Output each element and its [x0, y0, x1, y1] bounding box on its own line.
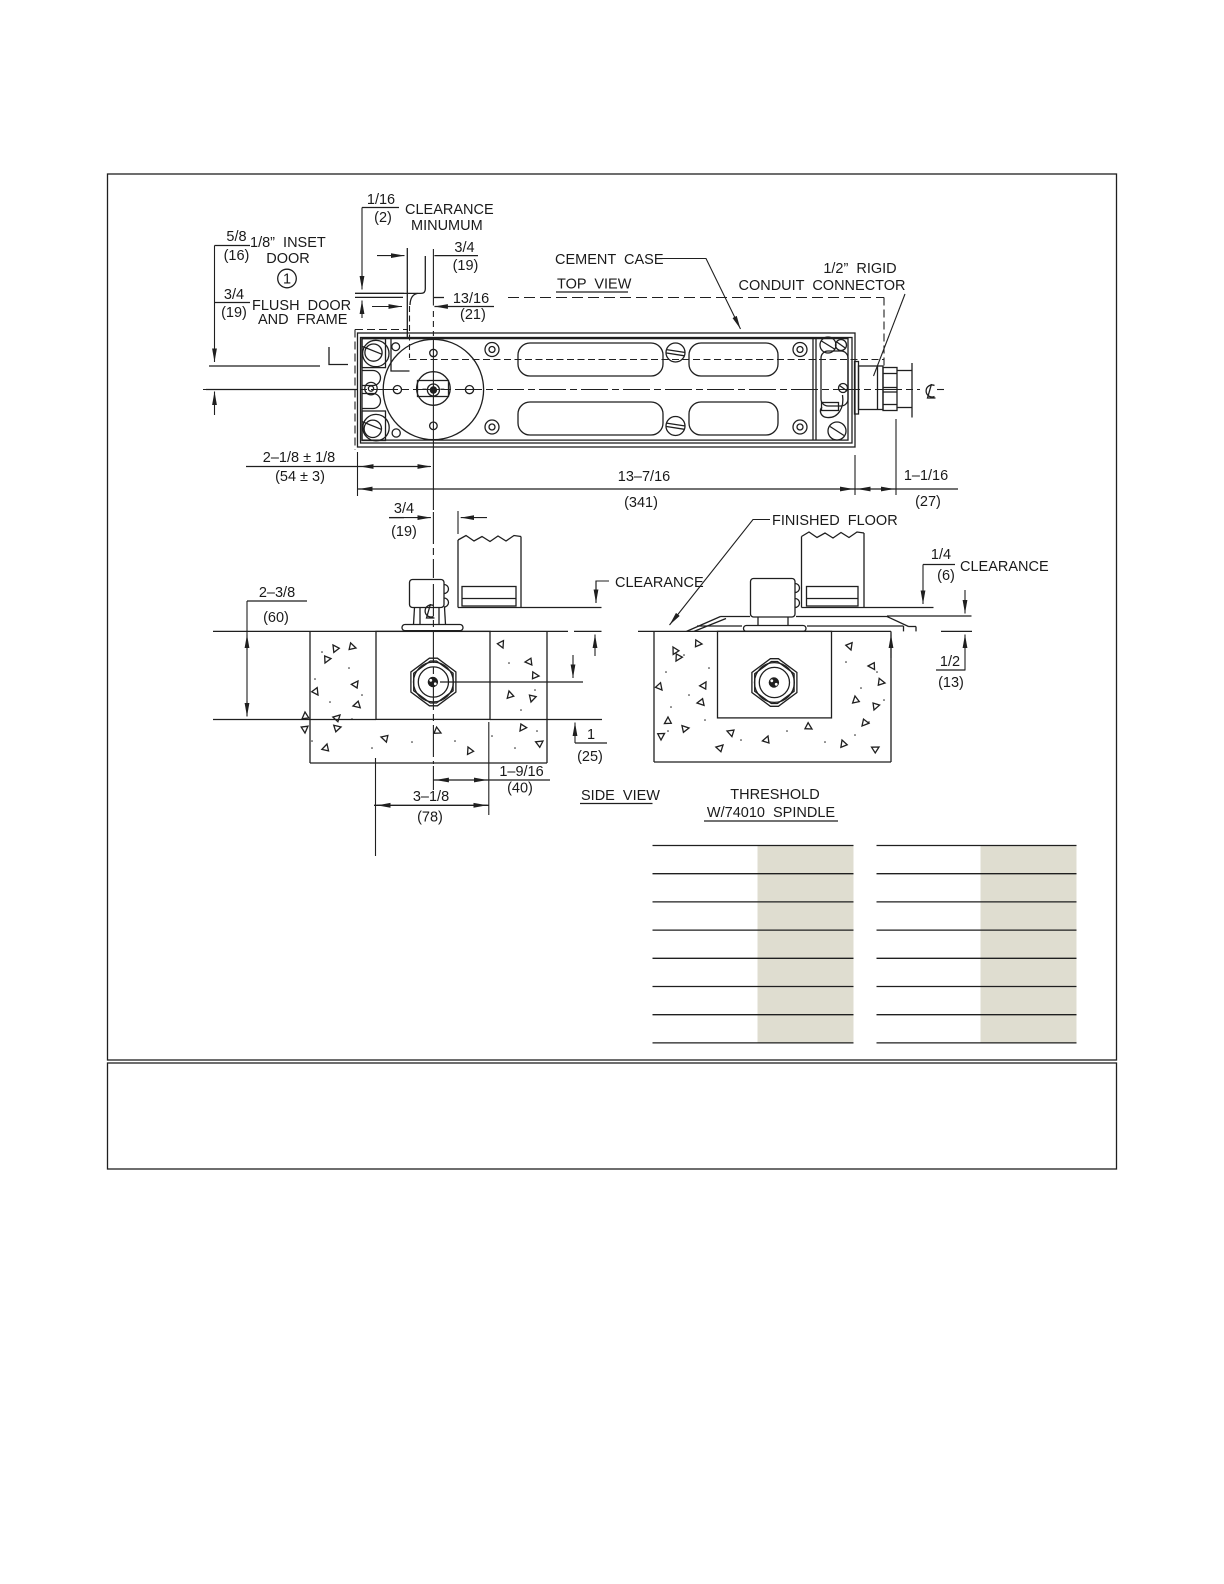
svg-text:1–1/16: 1–1/16 — [904, 468, 948, 484]
cam inner circle — [417, 372, 451, 406]
cement case inner wall — [361, 338, 853, 444]
svg-text:5/8: 5/8 — [226, 229, 246, 245]
svg-text:1/8” INSET: 1/8” INSET — [250, 235, 326, 251]
frame return L — [329, 347, 348, 365]
svg-text:2–3/8: 2–3/8 — [259, 585, 295, 601]
dim 3-1/8 (78) — [374, 804, 489, 806]
svg-text:1/2” RIGID: 1/2” RIGID — [823, 261, 896, 277]
case box — [376, 631, 490, 719]
table left lines — [653, 846, 854, 1043]
right wall double line — [812, 339, 814, 440]
svg-text:(40): (40) — [507, 781, 533, 797]
case box right view — [718, 631, 832, 718]
dim 1-1/16 — [895, 419, 897, 495]
door bottom line right — [802, 607, 934, 609]
table left shade — [758, 846, 854, 1044]
slot lower-left — [518, 402, 663, 435]
dashed frame corner top-left — [355, 329, 408, 331]
svg-text:FINISHED FLOOR: FINISHED FLOOR — [772, 513, 898, 529]
corner screw hole RT — [793, 343, 807, 357]
door edge line A — [406, 248, 408, 339]
spindle octagon inner — [414, 661, 453, 703]
table right shade — [981, 846, 1077, 1044]
end screw A — [820, 337, 836, 353]
case bottom extension right — [490, 719, 602, 721]
svg-text:(60): (60) — [263, 610, 289, 626]
svg-text:CLEARANCE: CLEARANCE — [405, 202, 494, 218]
svg-text:(16): (16) — [224, 248, 250, 264]
door edge line B with jog — [404, 256, 425, 293]
end screw C bottom — [828, 422, 846, 440]
spindle center filled — [430, 386, 437, 393]
svg-text:W/74010 SPINDLE: W/74010 SPINDLE — [707, 805, 835, 821]
svg-text:2–1/8 ± 1/8: 2–1/8 ± 1/8 — [263, 450, 335, 466]
ext line case left — [357, 452, 359, 496]
dim 1-9/16 (40) — [433, 779, 550, 781]
svg-text:CLEARANCE: CLEARANCE — [960, 559, 1049, 575]
left bracket housing top circle — [363, 340, 389, 366]
center mark wings — [423, 388, 427, 390]
svg-text:(27): (27) — [915, 494, 941, 510]
ring hole left — [393, 386, 401, 394]
bracket small screw — [365, 382, 377, 394]
left bracket housing bottom — [362, 411, 386, 441]
plate corner hole top — [392, 343, 400, 351]
svg-text:TOP VIEW: TOP VIEW — [557, 277, 632, 293]
closer body plate — [362, 339, 848, 441]
corner screw hole RB — [793, 420, 807, 434]
threshold bevel left — [687, 617, 721, 632]
svg-text:(13): (13) — [938, 675, 964, 691]
hidden vertical conduit — [883, 298, 885, 366]
spindle top block — [410, 580, 445, 608]
centerline symbol — [425, 604, 434, 618]
left dim vertical with arrows — [214, 246, 216, 363]
finished floor line — [213, 630, 568, 632]
svg-text:MINUMUM: MINUMUM — [411, 218, 483, 234]
bottom notes box — [108, 1063, 1117, 1169]
concrete hatch left view — [300, 639, 543, 756]
spindle axis line — [440, 681, 583, 683]
svg-text:CLEARANCE: CLEARANCE — [615, 575, 704, 591]
screw top-left — [365, 344, 382, 361]
svg-text:AND FRAME: AND FRAME — [258, 312, 348, 328]
concrete outline right view — [653, 631, 655, 762]
circled 1 — [278, 269, 297, 288]
svg-text:CEMENT CASE: CEMENT CASE — [555, 252, 664, 268]
spindle octagon outer right — [752, 659, 797, 707]
svg-text:(6): (6) — [937, 568, 955, 584]
end screw B — [836, 340, 847, 351]
frame double lines — [355, 292, 404, 294]
svg-text:3–1/8: 3–1/8 — [413, 789, 449, 805]
plate notch L top-left — [391, 339, 410, 371]
conduit flange — [855, 362, 859, 415]
svg-text:CONDUIT CONNECTOR: CONDUIT CONNECTOR — [738, 278, 905, 294]
hidden door swing line — [508, 297, 884, 299]
ring hole right — [465, 386, 473, 394]
svg-text:(19): (19) — [453, 258, 479, 274]
hidden line door edge — [410, 359, 885, 361]
latch hook — [822, 403, 839, 411]
concrete hatch right view — [655, 639, 885, 754]
door break zigzag right — [802, 532, 865, 538]
concrete outline left — [309, 631, 311, 763]
ring hole bottom — [430, 422, 438, 430]
svg-text:1: 1 — [587, 727, 595, 743]
svg-text:(25): (25) — [577, 749, 603, 765]
door section — [457, 540, 459, 608]
plate corner hole bottom — [392, 429, 400, 437]
case bottom extension left — [213, 719, 376, 721]
left bracket housing top — [362, 339, 386, 368]
rotor big circle — [383, 339, 483, 439]
conduit nut — [883, 368, 897, 411]
spindle neck — [419, 608, 421, 625]
left bracket housing bottom circle — [363, 414, 389, 440]
door jog arc — [410, 293, 418, 305]
slot upper-right — [689, 343, 778, 376]
table right lines — [877, 846, 1077, 1043]
corner screw hole LB — [485, 420, 499, 434]
corner screw hole LT — [485, 343, 499, 357]
svg-text:(54 ± 3): (54 ± 3) — [275, 469, 325, 485]
svg-text:1/16: 1/16 — [367, 192, 395, 208]
spindle circles right — [755, 663, 795, 703]
centerline symbol right — [926, 384, 935, 398]
threshold lower line — [697, 625, 742, 627]
ring hole top — [430, 349, 437, 356]
svg-text:1–9/16: 1–9/16 — [499, 764, 543, 780]
conduit hub — [859, 366, 884, 410]
svg-text:(19): (19) — [391, 524, 417, 540]
bracket tab upper — [362, 371, 381, 386]
svg-text:1/2: 1/2 — [940, 654, 960, 670]
bridge screw bottom — [666, 417, 685, 436]
svg-text:13/16: 13/16 — [453, 291, 489, 307]
door top edge line — [209, 365, 320, 367]
svg-text:(21): (21) — [460, 307, 486, 323]
svg-text:3/4: 3/4 — [394, 501, 414, 517]
door break zigzag — [458, 536, 521, 542]
spindle flange — [402, 625, 463, 631]
spindle top block right — [751, 579, 796, 618]
vertical centerline — [432, 512, 434, 578]
dim 1/2 (13) — [941, 630, 972, 632]
bracket tab lower — [362, 394, 381, 409]
dim clearance left — [596, 581, 609, 603]
spindle neck right — [757, 617, 759, 626]
spindle centerline vertical — [432, 249, 434, 306]
horizontal centerline — [203, 389, 920, 391]
pipe break line — [911, 363, 913, 418]
screw bottom-left — [364, 420, 381, 437]
spindle hub circle — [427, 384, 439, 396]
svg-text:(2): (2) — [374, 210, 392, 226]
dim 1 (25) — [572, 655, 574, 678]
svg-text:(19): (19) — [221, 305, 247, 321]
svg-text:(341): (341) — [624, 495, 658, 511]
slot lower-right — [689, 402, 778, 435]
end screw D small — [839, 384, 848, 393]
centerline extension left — [206, 389, 357, 391]
cement case outer wall — [358, 333, 856, 447]
spindle circles — [414, 662, 454, 702]
threshold plate top — [721, 616, 751, 618]
svg-text:(78): (78) — [417, 810, 443, 826]
svg-text:SIDE VIEW: SIDE VIEW — [581, 788, 660, 804]
door shoe — [462, 587, 516, 607]
svg-text:1/4: 1/4 — [931, 547, 951, 563]
svg-text:1: 1 — [283, 272, 291, 288]
conduit pipe — [897, 370, 912, 372]
svg-text:DOOR: DOOR — [266, 251, 310, 267]
dim 13-7/16 — [358, 488, 856, 490]
finished floor line right — [638, 630, 891, 632]
svg-text:3/4: 3/4 — [224, 287, 244, 303]
svg-text:THRESHOLD: THRESHOLD — [730, 787, 819, 803]
spindle octagon inner right — [755, 662, 794, 704]
main border frame — [108, 174, 1117, 1060]
spindle flange right — [744, 626, 807, 632]
spindle octagon outer — [411, 658, 456, 706]
door shoe right — [807, 587, 859, 607]
slot upper-left — [518, 343, 663, 376]
svg-text:13–7/16: 13–7/16 — [618, 469, 670, 485]
svg-text:3/4: 3/4 — [454, 240, 474, 256]
end cap cavity — [821, 351, 848, 406]
door face ext line — [457, 511, 459, 534]
door section right — [801, 537, 803, 608]
bridge screw top — [666, 343, 685, 362]
door bottom line — [458, 607, 602, 609]
spindle square — [418, 381, 449, 397]
threshold bevel right — [887, 617, 909, 627]
ext line case right — [854, 455, 856, 495]
